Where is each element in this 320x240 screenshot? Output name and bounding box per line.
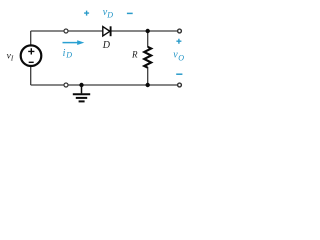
node: bottom output terminal — [178, 83, 182, 87]
wire: bottom horizontal from source to bottom output terminal — [31, 84, 180, 86]
wire: top horizontal from left corner to diode anode — [31, 30, 103, 32]
label + (anode side of vD) — [84, 11, 89, 16]
svg-text:R: R — [131, 50, 138, 60]
node: open circle on top wire — [64, 29, 68, 33]
svg-text:D: D — [106, 10, 113, 19]
label vI — [7, 51, 14, 62]
junction dot: resistor bottom node — [146, 83, 150, 87]
label iD — [63, 48, 73, 59]
wire: top horizontal from diode cathode to output terminal — [111, 30, 180, 32]
label - (cathode side of vD) — [127, 12, 133, 14]
label + (top of vO) — [176, 39, 181, 44]
svg-text:I: I — [10, 55, 14, 63]
voltage source vI (circle with + and -) — [21, 45, 42, 66]
resistor R (zigzag) — [144, 47, 151, 68]
label vD — [103, 7, 114, 19]
svg-text:D: D — [65, 51, 72, 60]
node: top output terminal — [178, 29, 182, 33]
svg-text:i: i — [63, 48, 66, 59]
current arrow iD — [63, 40, 85, 45]
junction dot: diode/resistor node — [146, 29, 150, 33]
junction dot: ground node — [79, 83, 83, 87]
svg-text:D: D — [102, 40, 111, 51]
wire: resistor branch top segment — [147, 31, 149, 47]
label - (bottom of vO) — [176, 73, 182, 75]
node: open circle on bottom wire — [64, 83, 68, 87]
wire: left vertical from top wire down through source to bottom wire — [30, 31, 32, 85]
label vO — [173, 50, 184, 63]
ground — [73, 85, 90, 101]
diode D (anode triangle + cathode bar) — [103, 26, 111, 36]
svg-text:O: O — [178, 54, 184, 63]
wire: resistor branch bottom segment — [147, 67, 149, 85]
